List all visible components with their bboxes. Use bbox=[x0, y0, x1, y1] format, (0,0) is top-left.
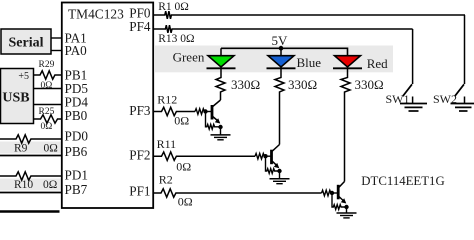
svg-text:R12: R12 bbox=[157, 93, 177, 107]
ground (SW1) bbox=[400, 104, 427, 112]
svg-text:PF2: PF2 bbox=[129, 148, 150, 163]
svg-text:0Ω: 0Ω bbox=[41, 122, 53, 132]
LED D2 Blue bbox=[267, 48, 322, 70]
svg-text:Blue: Blue bbox=[297, 55, 322, 70]
svg-text:0Ω: 0Ω bbox=[44, 142, 58, 154]
wire PD5 bbox=[34, 88, 63, 90]
transistor Q1 DTC114 (green) bbox=[195, 100, 223, 129]
svg-text:330Ω: 330Ω bbox=[355, 77, 384, 92]
svg-text:R2: R2 bbox=[159, 172, 173, 186]
wire PF4 to SW1 bbox=[412, 29, 414, 84]
svg-text:PB0: PB0 bbox=[65, 108, 88, 123]
LED D3 Red bbox=[333, 56, 388, 71]
wire PD4 bbox=[34, 104, 63, 106]
supply 5V bbox=[272, 33, 289, 48]
svg-text:0Ω: 0Ω bbox=[176, 160, 191, 174]
resistor 330ohm (blue) bbox=[275, 68, 317, 144]
svg-text:5V: 5V bbox=[272, 33, 289, 48]
svg-text:Serial: Serial bbox=[9, 35, 44, 50]
svg-text:R10: R10 bbox=[14, 179, 33, 191]
ground (SW2) bbox=[451, 104, 474, 112]
resistor R25 bbox=[34, 107, 63, 132]
LED D1 Green bbox=[173, 48, 236, 68]
resistor R29 bbox=[34, 60, 63, 91]
svg-text:0Ω: 0Ω bbox=[174, 114, 189, 128]
svg-text:R9: R9 bbox=[14, 142, 28, 154]
svg-text:+5: +5 bbox=[18, 71, 29, 82]
wire bottom-left stub bbox=[0, 210, 60, 213]
svg-text:R29: R29 bbox=[39, 60, 55, 70]
svg-text:DTC114EET1G: DTC114EET1G bbox=[361, 174, 444, 188]
svg-text:R1 0Ω: R1 0Ω bbox=[158, 1, 189, 13]
wire PB6 bbox=[0, 155, 62, 157]
svg-text:R25: R25 bbox=[39, 107, 55, 117]
wire 5V rail bbox=[221, 48, 348, 56]
svg-text:TM4C123: TM4C123 bbox=[68, 6, 124, 21]
wire PB7 bbox=[0, 192, 62, 194]
node 5V junction bbox=[279, 46, 284, 51]
ground (Q1) bbox=[211, 127, 231, 140]
svg-text:PA0: PA0 bbox=[65, 43, 88, 58]
svg-text:PB7: PB7 bbox=[65, 182, 88, 197]
LED row highlight band bbox=[155, 46, 393, 73]
resistor 330ohm (green) bbox=[216, 68, 260, 100]
transistor Q3 DTC114 (red) bbox=[322, 174, 445, 209]
net label band R10 bbox=[0, 179, 62, 191]
connector J1 Serial bbox=[1, 29, 51, 54]
svg-text:Green: Green bbox=[173, 49, 205, 64]
switch SW2 bbox=[433, 84, 465, 106]
wire PF0 to SW2 bbox=[464, 15, 466, 84]
svg-text:PF1: PF1 bbox=[129, 184, 150, 199]
svg-text:0Ω: 0Ω bbox=[178, 194, 193, 208]
svg-text:330Ω: 330Ω bbox=[288, 77, 317, 92]
svg-text:0Ω: 0Ω bbox=[41, 81, 53, 91]
svg-text:Red: Red bbox=[367, 56, 388, 71]
svg-text:R13 0Ω: R13 0Ω bbox=[158, 33, 194, 45]
svg-text:PF4: PF4 bbox=[129, 19, 151, 34]
wire PA1 bbox=[51, 37, 62, 39]
svg-text:330Ω: 330Ω bbox=[231, 77, 260, 92]
resistor R9 bbox=[0, 135, 62, 155]
resistor R1 bbox=[153, 1, 465, 19]
connector J2 USB bbox=[1, 69, 34, 124]
resistor R11 bbox=[153, 137, 255, 174]
resistor R12 bbox=[153, 93, 195, 128]
switch SW1 bbox=[386, 84, 413, 106]
svg-text:PF3: PF3 bbox=[129, 103, 151, 118]
svg-text:PB6: PB6 bbox=[65, 144, 88, 159]
resistor 330ohm (red) bbox=[341, 68, 384, 181]
wire PA0 bbox=[51, 50, 62, 52]
svg-text:USB: USB bbox=[2, 91, 29, 106]
IC U1 TM4C123 bbox=[62, 3, 153, 209]
svg-text:PD0: PD0 bbox=[65, 128, 89, 143]
resistor R10 bbox=[0, 172, 62, 191]
svg-text:R11: R11 bbox=[157, 137, 177, 151]
ground (Q2) bbox=[270, 171, 290, 184]
resistor R13 bbox=[153, 25, 413, 45]
net label band R9 bbox=[0, 142, 62, 154]
transistor Q2 DTC114 (blue) bbox=[255, 145, 282, 174]
resistor R2 bbox=[153, 172, 322, 208]
svg-text:PD1: PD1 bbox=[65, 168, 88, 183]
ground (Q3) bbox=[337, 207, 357, 218]
svg-text:0Ω: 0Ω bbox=[43, 179, 57, 191]
